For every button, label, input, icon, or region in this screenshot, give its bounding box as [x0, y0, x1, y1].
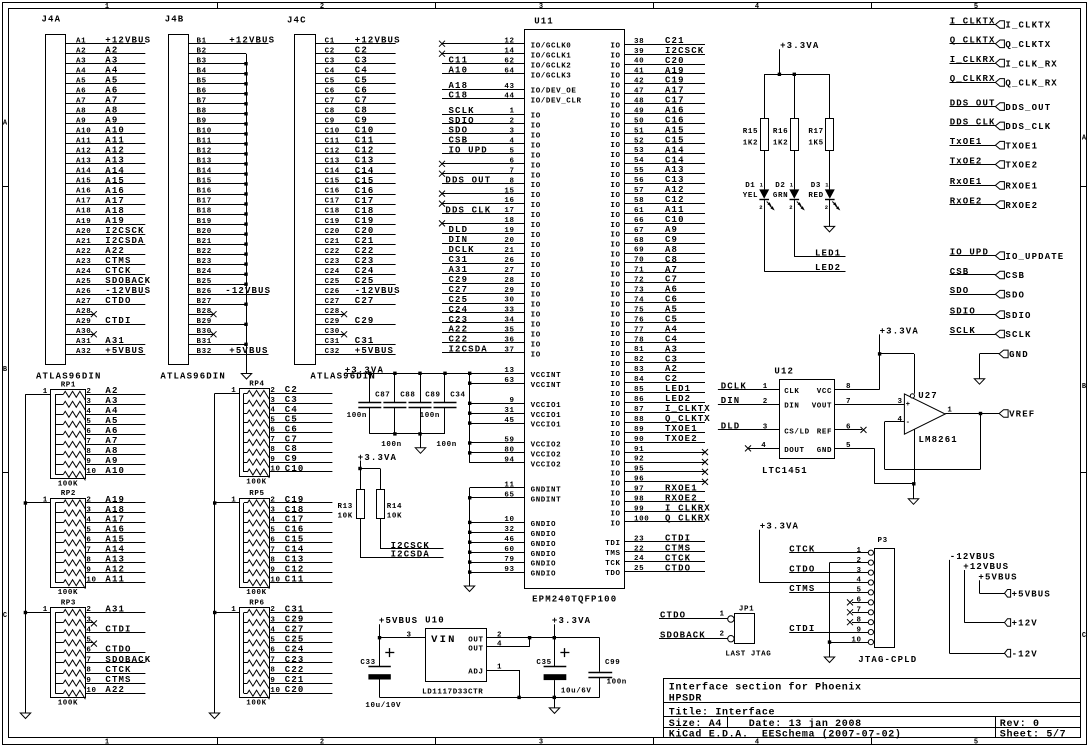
svg-text:I_CLKRX: I_CLKRX [665, 504, 711, 514]
pin 10 wire net A22 [85, 685, 145, 695]
hierarchical label RXOE1 net RxOE1 [950, 177, 1039, 191]
svg-text:100n: 100n [347, 412, 367, 420]
svg-text:C10: C10 [325, 128, 340, 136]
pin B3 wire to ground bus [189, 57, 248, 65]
pin 42 of U11 wire net C19 [625, 76, 706, 86]
capacitor C35 10u/6V [536, 638, 591, 698]
pin B15 wire to ground bus [189, 178, 248, 186]
power +3.3VA [552, 616, 591, 639]
ground [549, 708, 559, 714]
svg-text:100n: 100n [420, 412, 440, 420]
svg-text:97: 97 [634, 486, 644, 494]
svg-text:IO: IO [610, 351, 620, 359]
svg-text:1: 1 [497, 664, 502, 672]
pin 96 of U11 (no connect) [625, 476, 709, 485]
pin 3 of U12 wire net DLD [718, 422, 780, 432]
svg-text:A23: A23 [76, 258, 91, 266]
svg-text:OUT: OUT [468, 646, 483, 654]
svg-text:29: 29 [504, 287, 514, 295]
pin 6 wire net CTDO [85, 645, 145, 655]
svg-text:IO: IO [531, 242, 541, 250]
svg-text:IO: IO [531, 262, 541, 270]
pin 3 wire net A18 [85, 505, 145, 515]
svg-text:DDS_OUT: DDS_OUT [1005, 103, 1051, 113]
pin B16 wire to ground bus [189, 188, 248, 196]
svg-text:2: 2 [857, 557, 862, 565]
pin C25 wire net C25 [316, 276, 396, 286]
pin 5 wire net C5 [269, 415, 332, 425]
svg-text:9: 9 [270, 566, 275, 574]
svg-text:91: 91 [634, 446, 644, 454]
pin 19 of U11 wire net DLD [442, 225, 525, 235]
pin B28 (no connect) [189, 308, 217, 317]
pin 4 of U12 (no connect) [745, 442, 779, 451]
pin B19 wire to ground bus [189, 218, 248, 226]
svg-text:1K2: 1K2 [743, 139, 758, 147]
svg-text:72: 72 [634, 277, 644, 285]
pin C21 wire net C21 [316, 236, 396, 246]
svg-text:C26: C26 [325, 288, 340, 296]
svg-text:C4: C4 [665, 334, 678, 344]
svg-text:73: 73 [634, 287, 644, 295]
svg-text:4: 4 [270, 517, 275, 525]
pin B23 wire to ground bus [189, 258, 248, 266]
svg-text:76: 76 [634, 316, 644, 324]
svg-text:YEL: YEL [743, 192, 758, 200]
svg-text:C11: C11 [355, 136, 375, 146]
pin A19 wire net A19 [65, 216, 145, 226]
svg-text:Q_CLK_RX: Q_CLK_RX [1005, 79, 1057, 89]
svg-text:C20: C20 [355, 226, 375, 236]
svg-text:3: 3 [86, 398, 91, 406]
pin 26 of U11 wire net C31 [442, 255, 525, 265]
svg-text:SCLK: SCLK [1005, 330, 1031, 340]
svg-text:C20: C20 [285, 685, 305, 695]
svg-text:4: 4 [857, 577, 862, 585]
svg-text:62: 62 [504, 57, 514, 65]
wire ground bus of J4B [246, 54, 248, 374]
svg-text:-12VBUS: -12VBUS [950, 552, 996, 562]
pin 3 wire net C29 [269, 614, 332, 624]
svg-text:DDS_CLK: DDS_CLK [445, 205, 491, 215]
svg-text:49: 49 [634, 108, 644, 116]
wire +3.3VA rail junctions [368, 372, 447, 375]
svg-text:10K: 10K [338, 513, 353, 521]
svg-text:C32: C32 [325, 348, 340, 356]
svg-text:C6: C6 [285, 425, 298, 435]
svg-text:4: 4 [86, 517, 91, 525]
svg-text:IO: IO [610, 152, 620, 160]
resistor R13 10K [338, 469, 365, 521]
svg-text:A18: A18 [449, 81, 469, 91]
svg-text:C5: C5 [325, 78, 335, 86]
pin C7 wire net C7 [316, 96, 396, 106]
svg-text:A7: A7 [105, 96, 118, 106]
svg-text:38: 38 [634, 38, 644, 46]
pin A14 wire net A14 [65, 166, 145, 176]
svg-text:47: 47 [634, 88, 644, 96]
pin 3 of U11 wire net SDO [442, 126, 525, 136]
pin 6 wire net C15 [269, 535, 332, 545]
svg-text:C20: C20 [665, 56, 685, 66]
pin 9 wire net C21 [269, 675, 332, 685]
svg-text:A13: A13 [76, 158, 91, 166]
svg-text:Q_CLKTX: Q_CLKTX [950, 36, 996, 46]
svg-text:C27: C27 [285, 625, 305, 635]
svg-text:C14: C14 [665, 155, 685, 165]
pin 85 of U11 wire net LED1 [625, 384, 706, 394]
svg-text:TXOE2: TXOE2 [665, 434, 698, 444]
pin C4 wire net C4 [316, 66, 396, 76]
svg-text:5: 5 [974, 739, 978, 746]
svg-text:6: 6 [510, 157, 515, 165]
svg-text:C19: C19 [355, 216, 375, 226]
svg-text:67: 67 [634, 227, 644, 235]
LED D2 GRN [773, 181, 804, 211]
svg-text:A6: A6 [76, 88, 86, 96]
svg-text:A12: A12 [105, 565, 125, 575]
pin 5 of U12 wire to ground [835, 442, 914, 484]
svg-text:88: 88 [634, 416, 644, 424]
svg-text:8: 8 [846, 383, 851, 391]
pin 2 wire net C19 [269, 495, 332, 505]
svg-text:IO: IO [610, 53, 620, 61]
svg-text:5: 5 [270, 637, 275, 645]
pin 37 of U11 wire net I2CSDA [442, 345, 525, 355]
pin 10 wire net C11 [269, 575, 332, 585]
resistor R17 1K5 [808, 74, 833, 189]
power +3.3VA [358, 453, 397, 469]
svg-text:C14: C14 [325, 168, 340, 176]
pin 3 + input of U27 [898, 398, 903, 406]
pin 6 of U12 (no connect) [835, 424, 867, 433]
svg-text:DDS_CLK: DDS_CLK [950, 118, 996, 128]
svg-text:100K: 100K [58, 589, 78, 597]
svg-text:R15: R15 [743, 128, 758, 136]
svg-text:9: 9 [270, 456, 275, 464]
svg-text:C15: C15 [285, 535, 305, 545]
svg-text:B25: B25 [197, 278, 212, 286]
svg-text:B12: B12 [197, 148, 212, 156]
svg-text:IO: IO [610, 122, 620, 130]
hierarchical label Q_CLK_RX net Q_CLKRX [950, 74, 1058, 88]
svg-text:16: 16 [504, 197, 514, 205]
pin C24 wire net C24 [316, 266, 396, 276]
svg-text:C16: C16 [355, 186, 375, 196]
svg-text:IO: IO [610, 92, 620, 100]
svg-text:CTDI: CTDI [665, 533, 691, 543]
svg-text:Q_CLKRX: Q_CLKRX [665, 514, 711, 524]
pin 29 of U11 wire net C27 [442, 285, 525, 295]
svg-text:65: 65 [504, 492, 514, 500]
svg-text:8: 8 [857, 616, 862, 624]
svg-text:RP2: RP2 [61, 490, 76, 498]
pin A5 wire net A5 [65, 76, 145, 86]
svg-text:IO: IO [610, 142, 620, 150]
svg-text:A22: A22 [449, 325, 469, 335]
hierarchical label CSB net CSB [950, 267, 1026, 281]
svg-text:C3: C3 [325, 57, 335, 65]
svg-text:3: 3 [270, 397, 275, 405]
svg-text:IO: IO [531, 192, 541, 200]
svg-text:TDI: TDI [605, 540, 620, 548]
svg-text:-: - [906, 419, 910, 427]
svg-text:C31: C31 [355, 336, 375, 346]
pin 10 wire net A10 [85, 466, 145, 476]
value 100n labels [347, 412, 457, 449]
svg-text:3: 3 [510, 128, 515, 136]
pin 7 wire net A14 [85, 545, 145, 555]
svg-text:LED2: LED2 [815, 263, 841, 273]
svg-text:C6: C6 [665, 295, 678, 305]
pin 9 wire net A9 [85, 456, 145, 466]
svg-text:C25: C25 [285, 635, 305, 645]
svg-text:A16: A16 [665, 106, 685, 116]
svg-text:IO: IO [610, 252, 620, 260]
pin 66 of U11 wire net C10 [625, 215, 706, 225]
pin 55 of U11 wire net A13 [625, 165, 706, 175]
connector P3 JTAG-CPLD [858, 537, 917, 665]
pin B32 wire net +5VBUS [189, 346, 269, 356]
svg-text:RP4: RP4 [249, 381, 264, 389]
ground [241, 374, 251, 380]
wire net LED1 from D2 [794, 200, 845, 259]
svg-text:89: 89 [634, 426, 644, 434]
svg-text:4: 4 [755, 3, 759, 11]
svg-text:10: 10 [86, 576, 96, 584]
pin 22 of U11 wire net CTMS [625, 543, 706, 553]
svg-text:C4: C4 [285, 405, 298, 415]
pin C26 wire net -12VBUS [316, 286, 401, 296]
pin B27 wire to ground bus [189, 298, 248, 306]
svg-text:I2CSDA: I2CSDA [105, 236, 144, 246]
pin C23 wire net C23 [316, 256, 396, 266]
svg-text:C11: C11 [325, 138, 340, 146]
connector J4A [42, 15, 66, 365]
svg-text:ADJ: ADJ [468, 669, 483, 677]
svg-text:IO: IO [610, 63, 620, 71]
svg-text:IO: IO [531, 292, 541, 300]
svg-text:A9: A9 [105, 456, 118, 466]
svg-text:CTDI: CTDI [105, 625, 131, 635]
pin 2 wire net A19 [85, 495, 145, 505]
svg-text:4: 4 [86, 626, 91, 634]
svg-text:+12VBUS: +12VBUS [229, 36, 275, 46]
wire net I2CSDA [360, 519, 444, 559]
pin 6 wire net A15 [85, 535, 145, 545]
svg-text:83: 83 [634, 366, 644, 374]
svg-text:B19: B19 [197, 218, 212, 226]
svg-text:4: 4 [270, 407, 275, 415]
svg-text:2: 2 [825, 204, 828, 211]
svg-text:C29: C29 [325, 318, 340, 326]
svg-text:A2: A2 [665, 364, 678, 374]
svg-text:99: 99 [634, 505, 644, 513]
svg-text:B8: B8 [197, 108, 207, 116]
svg-text:I_CLKTX: I_CLKTX [1005, 21, 1051, 31]
pin 2 wire net A31 [85, 604, 145, 614]
pin 9 of P3 wire net CTDI [789, 624, 868, 634]
pin 82 of U11 wire net C3 [625, 354, 706, 364]
svg-text:A19: A19 [665, 66, 685, 76]
svg-text:+5VBUS: +5VBUS [1012, 590, 1051, 600]
svg-text:C19: C19 [665, 76, 685, 86]
svg-text:C6: C6 [325, 88, 335, 96]
pin C18 wire net C18 [316, 206, 396, 216]
svg-text:C15: C15 [665, 135, 685, 145]
svg-text:I_CLKTX: I_CLKTX [665, 404, 711, 414]
pin 2 wire net A2 [85, 386, 145, 396]
svg-text:B15: B15 [197, 178, 212, 186]
svg-text:8: 8 [270, 446, 275, 454]
svg-text:-12VBUS: -12VBUS [355, 286, 401, 296]
svg-text:8: 8 [270, 557, 275, 565]
svg-text:B13: B13 [197, 158, 212, 166]
svg-text:C8: C8 [285, 444, 298, 454]
svg-text:GNDIO: GNDIO [531, 551, 557, 559]
svg-text:2: 2 [320, 3, 324, 11]
ground [415, 448, 425, 454]
svg-text:53: 53 [634, 147, 644, 155]
svg-text:39: 39 [634, 48, 644, 56]
svg-text:1: 1 [231, 387, 236, 395]
svg-text:C5: C5 [665, 315, 678, 325]
pin 5 of RP3 (no connect) [85, 637, 97, 647]
svg-text:B30: B30 [197, 328, 212, 336]
svg-text:6: 6 [857, 597, 862, 605]
svg-text:GNDIO: GNDIO [531, 521, 557, 529]
svg-text:VIN: VIN [431, 634, 457, 646]
connector J4C [287, 16, 316, 365]
svg-text:CTCK: CTCK [105, 665, 131, 675]
svg-text:9: 9 [86, 566, 91, 574]
svg-text:A11: A11 [105, 136, 125, 146]
svg-text:IO: IO [610, 301, 620, 309]
svg-text:3: 3 [763, 424, 768, 432]
pin 6 of P3 (no connect) [847, 597, 868, 606]
pin 1 wire of RP6 [215, 606, 240, 614]
svg-text:IO: IO [610, 331, 620, 339]
svg-text:C22: C22 [449, 335, 469, 345]
svg-text:70: 70 [634, 257, 644, 265]
pin C10 wire net C10 [316, 126, 396, 136]
svg-text:A14: A14 [665, 145, 685, 155]
svg-text:A2: A2 [105, 46, 118, 56]
capacitor C99 100n [588, 638, 627, 698]
svg-text:C13: C13 [665, 175, 685, 185]
svg-text:25: 25 [634, 565, 644, 573]
pin 4 of P3 wire [759, 577, 868, 585]
svg-text:TDO: TDO [605, 570, 620, 578]
capacitor C34 100n [434, 373, 466, 434]
svg-text:VCCIO1: VCCIO1 [531, 402, 562, 410]
svg-text:27: 27 [504, 267, 514, 275]
pin 100 of U11 wire net Q_CLKRX [625, 514, 711, 524]
pin 52 of U11 wire net C15 [625, 135, 706, 145]
pin 4 wire net A17 [85, 515, 145, 525]
svg-text:5: 5 [270, 527, 275, 535]
svg-text:A14: A14 [76, 168, 91, 176]
pin 9 wire net CTMS [85, 675, 145, 685]
svg-text:10: 10 [86, 687, 96, 695]
pin 3 wire net A3 [85, 396, 145, 406]
svg-text:C24: C24 [325, 268, 340, 276]
svg-text:TXOE2: TXOE2 [1005, 161, 1038, 171]
svg-text:VCCIO2: VCCIO2 [531, 462, 562, 470]
capacitor C87 100n [358, 373, 390, 434]
svg-text:71: 71 [634, 267, 644, 275]
svg-text:10: 10 [851, 636, 861, 644]
svg-text:C23: C23 [285, 655, 305, 665]
svg-text:+12VBUS: +12VBUS [963, 562, 1009, 572]
pin 73 of U11 wire net A6 [625, 285, 706, 295]
pin 76 of U11 wire net C5 [625, 315, 706, 325]
svg-text:SDOBACK: SDOBACK [105, 655, 151, 665]
svg-text:81: 81 [634, 346, 644, 354]
pin 8 of U11 wire net DDS_OUT [442, 175, 525, 185]
svg-text:68: 68 [634, 237, 644, 245]
ground [464, 586, 474, 592]
svg-text:100K: 100K [58, 700, 78, 708]
svg-text:1: 1 [43, 497, 48, 505]
svg-text:A6: A6 [665, 285, 678, 295]
svg-text:IO: IO [610, 272, 620, 280]
svg-text:VREF: VREF [1009, 410, 1035, 420]
svg-text:C14: C14 [355, 166, 375, 176]
svg-text:32: 32 [504, 526, 514, 534]
svg-text:C18: C18 [285, 505, 305, 515]
pin 68 of U11 wire net C9 [625, 235, 706, 245]
svg-text:90: 90 [634, 436, 644, 444]
pin 84 of U11 wire net C2 [625, 374, 706, 384]
svg-text:IO: IO [531, 342, 541, 350]
svg-text:Q_CLKRX: Q_CLKRX [950, 74, 996, 84]
pin 12 of U11 (no connect) [439, 37, 525, 46]
svg-text:SDIO: SDIO [950, 307, 976, 317]
svg-text:34: 34 [504, 317, 514, 325]
svg-text:CTCK: CTCK [105, 266, 131, 276]
svg-text:11: 11 [504, 482, 514, 490]
svg-text:1: 1 [105, 739, 109, 746]
pin C8 wire net C8 [316, 106, 396, 116]
pin 43 of U11 wire net A18 [442, 81, 525, 91]
pin 4 wire net C4 [269, 405, 332, 415]
svg-text:C2: C2 [665, 374, 678, 384]
pin 7 wire net C14 [269, 545, 332, 555]
pin C20 wire net C20 [316, 226, 396, 236]
pin 10 wire net C20 [269, 685, 332, 695]
svg-text:A3: A3 [665, 344, 678, 354]
svg-text:U12: U12 [774, 367, 794, 377]
pin 8 of U12 wire to +3.3VA [835, 354, 880, 391]
svg-text:6: 6 [86, 537, 91, 545]
svg-text:A9: A9 [665, 225, 678, 235]
svg-text:C31: C31 [449, 255, 469, 265]
svg-text:C2: C2 [355, 46, 368, 56]
pin A24 wire net CTCK [65, 266, 145, 276]
svg-text:7: 7 [270, 436, 275, 444]
svg-text:1: 1 [105, 3, 109, 11]
svg-text:IO: IO [610, 481, 620, 489]
wire U10 ground rail [380, 696, 600, 708]
svg-text:48: 48 [634, 98, 644, 106]
power +5VBUS [379, 616, 418, 638]
svg-text:5: 5 [86, 637, 91, 645]
svg-text:A7: A7 [105, 436, 118, 446]
pin 39 of U11 wire net I2CSCK [625, 46, 706, 56]
svg-text:46: 46 [504, 536, 514, 544]
hierarchical label SCLK net SCLK [950, 326, 1032, 340]
